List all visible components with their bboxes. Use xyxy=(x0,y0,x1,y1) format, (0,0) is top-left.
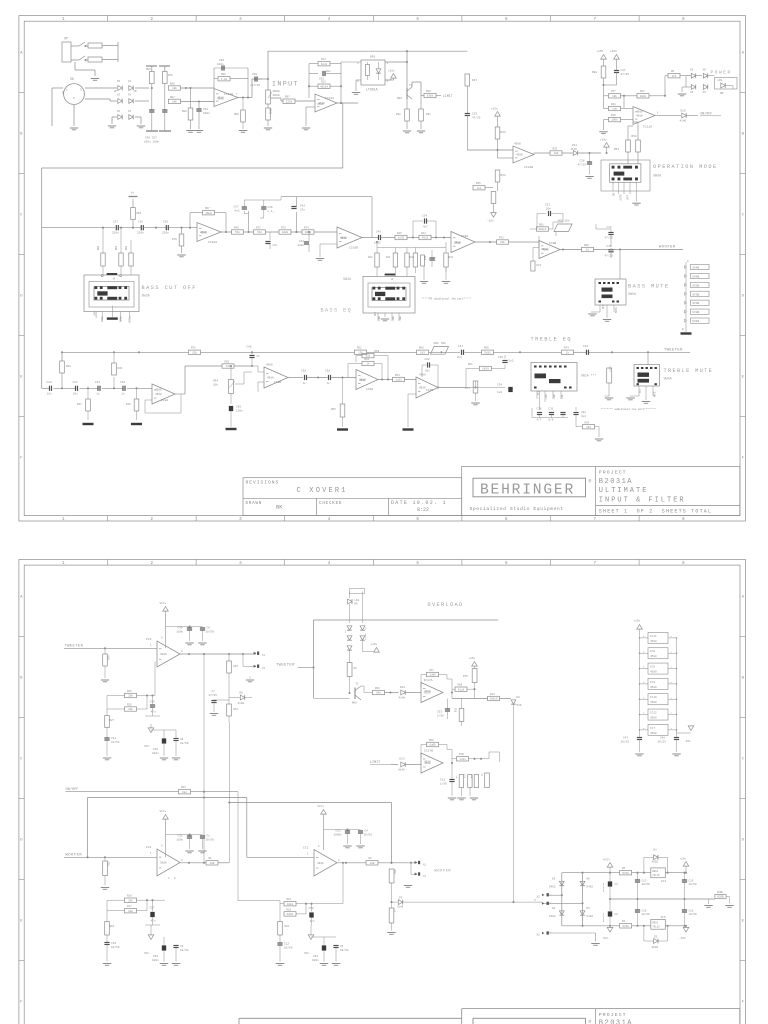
svg-text:1u06: 1u06 xyxy=(429,674,436,677)
svg-text:4580: 4580 xyxy=(454,242,461,245)
svg-text:R27: R27 xyxy=(110,719,115,722)
svg-text:47/25: 47/25 xyxy=(605,254,614,258)
switch SW2A body xyxy=(372,288,406,301)
svg-text:R76: R76 xyxy=(463,675,468,678)
svg-text:R50: R50 xyxy=(632,135,637,138)
svg-text:15k: 15k xyxy=(366,354,371,358)
op-amp IC11A xyxy=(633,107,655,125)
DIP switch operation mode outer box xyxy=(601,160,650,191)
svg-text:R76: R76 xyxy=(168,74,173,77)
svg-text:1n: 1n xyxy=(327,382,331,385)
svg-text:C22: C22 xyxy=(73,381,78,384)
svg-text:624k: 624k xyxy=(321,62,328,66)
wire IC2 in xyxy=(247,856,314,858)
ground R11 xyxy=(101,887,109,889)
svg-text:8n2: 8n2 xyxy=(235,210,240,213)
resistor R7B vertical xyxy=(421,255,425,266)
svg-text:ULTIMATE: ULTIMATE xyxy=(599,487,649,495)
svg-text:10/50: 10/50 xyxy=(689,912,697,916)
ground resistor bank A xyxy=(423,266,425,280)
capacitor C1 xyxy=(190,834,203,836)
svg-text:VR4: VR4 xyxy=(213,380,218,383)
svg-text:4dB: 4dB xyxy=(561,394,564,399)
switch SW1A dark bar B xyxy=(549,379,561,383)
svg-text:E: E xyxy=(742,376,745,380)
capacitor C53b xyxy=(447,708,449,710)
svg-text:SW5A: SW5A xyxy=(628,293,637,297)
ground C63 xyxy=(343,845,351,847)
resistor R8 vertical xyxy=(347,663,352,677)
op-amp IC7B xyxy=(416,377,438,398)
svg-text:R74: R74 xyxy=(304,226,309,229)
regulator IC4 box xyxy=(651,868,666,878)
capacitor C21 series xyxy=(97,386,99,391)
svg-text:C9: C9 xyxy=(180,738,184,741)
svg-text:67Hz: 67Hz xyxy=(101,316,104,322)
op-amp IC9A xyxy=(451,232,475,253)
diode X1 tweeter lower xyxy=(242,654,244,667)
svg-text:R6A: R6A xyxy=(429,739,434,742)
resistor R65 vertical xyxy=(342,378,344,405)
svg-text:B2031A: B2031A xyxy=(599,478,633,486)
svg-text:®: ® xyxy=(589,1018,592,1024)
resistor R74 box xyxy=(302,230,314,234)
bridge rail left xyxy=(561,873,563,926)
svg-text:ON/OFF: ON/OFF xyxy=(66,787,79,792)
svg-text:C10: C10 xyxy=(111,942,116,945)
svg-text:IC12B: IC12B xyxy=(224,93,233,96)
svg-text:C32: C32 xyxy=(581,411,586,414)
capacitor C63 xyxy=(324,829,348,831)
svg-text:®: ® xyxy=(589,478,592,485)
svg-text:10/50: 10/50 xyxy=(206,630,215,634)
svg-text:RD: RD xyxy=(355,603,359,606)
capacitor C25 xyxy=(165,225,167,230)
svg-text:+15v: +15v xyxy=(469,657,476,660)
power +15V overload xyxy=(374,648,380,653)
capacitor C49b xyxy=(166,626,190,628)
svg-text:X2: X2 xyxy=(537,934,541,937)
capacitor C3 big xyxy=(609,873,611,881)
svg-text:R36: R36 xyxy=(118,367,123,370)
svg-text:X3: X3 xyxy=(690,91,694,94)
svg-text:C1: C1 xyxy=(207,835,211,838)
svg-text:8/8: 8/8 xyxy=(549,418,554,422)
power VCC- psu xyxy=(609,926,611,928)
diode D4 xyxy=(559,911,564,915)
ground C53 xyxy=(146,130,158,132)
cap bar above SW2A xyxy=(385,274,396,276)
resistor R58 box xyxy=(417,350,429,354)
ground SW2A xyxy=(381,318,389,320)
capacitor C60 filled xyxy=(229,406,233,411)
svg-text:VCC-: VCC- xyxy=(603,937,610,940)
psu ground top A xyxy=(704,905,712,907)
svg-text:3: 3 xyxy=(357,62,359,65)
ground R59 xyxy=(605,397,613,399)
svg-text:220n: 220n xyxy=(162,232,169,235)
border frame inner xyxy=(24,21,740,515)
feedback C67 box xyxy=(427,672,439,676)
svg-text:R96: R96 xyxy=(221,73,226,76)
svg-text:C23: C23 xyxy=(47,381,52,384)
switch SW2A pads bottom xyxy=(373,297,376,300)
svg-text:6000/50: 6000/50 xyxy=(602,882,605,892)
switch SW2A dark bar xyxy=(375,292,385,296)
svg-text:R48: R48 xyxy=(611,103,616,106)
wire woofer out xyxy=(613,249,683,251)
resistor R90B vertical xyxy=(266,108,271,120)
svg-text:3: 3 xyxy=(338,859,340,862)
svg-text:R42: R42 xyxy=(368,256,373,259)
svg-text:C: C xyxy=(20,214,23,218)
svg-text:C18: C18 xyxy=(689,910,694,913)
switch SW3A pads top xyxy=(95,286,98,289)
svg-text:R43: R43 xyxy=(449,256,454,259)
power VCC- IC2 xyxy=(308,935,314,940)
svg-text:10/50: 10/50 xyxy=(180,948,189,952)
svg-text:R67: R67 xyxy=(205,207,210,210)
wire R45-R44 xyxy=(407,237,419,239)
svg-text:C50: C50 xyxy=(150,701,155,704)
ground R57 xyxy=(471,402,479,404)
svg-text:47u: 47u xyxy=(151,920,156,923)
svg-text:R99: R99 xyxy=(182,110,187,113)
svg-text:88Hz: 88Hz xyxy=(120,316,123,322)
svg-text:SHEET 1 OF 2 SHEETS TOTAL: SHEET 1 OF 2 SHEETS TOTAL xyxy=(599,508,712,514)
svg-text:4u7: 4u7 xyxy=(423,226,428,229)
svg-text:100Hz: 100Hz xyxy=(129,316,132,324)
op-amp IC8B xyxy=(264,367,288,388)
svg-text:C42: C42 xyxy=(300,205,305,208)
ground C51b xyxy=(185,850,193,852)
svg-text:D: D xyxy=(20,838,23,842)
svg-text:4148: 4148 xyxy=(680,119,687,122)
svg-text:13k: 13k xyxy=(358,350,363,354)
svg-text:1k54: 1k54 xyxy=(482,367,489,371)
svg-text:R16: R16 xyxy=(234,708,239,711)
resistor R46 box xyxy=(232,230,244,234)
wire IC12A out xyxy=(337,102,358,104)
ground C9b xyxy=(172,757,180,759)
resistor R5 vertical xyxy=(476,759,478,775)
capacitor C57b filled xyxy=(152,900,154,911)
svg-text:C32: C32 xyxy=(583,345,588,348)
svg-text:R27: R27 xyxy=(472,79,477,82)
capacitor C18 xyxy=(684,899,686,910)
svg-text:X9: X9 xyxy=(703,69,707,72)
svg-text:41k8M: 41k8M xyxy=(609,365,612,372)
ground IC7B thick xyxy=(408,393,416,395)
svg-text:R63: R63 xyxy=(375,350,380,353)
resistor R88 box 10k xyxy=(169,86,181,90)
IC8A feedback box xyxy=(145,399,152,401)
wire C50 to VR6A xyxy=(257,78,268,80)
wire loop to T1 base xyxy=(314,697,350,699)
svg-text:OFF: OFF xyxy=(627,194,630,199)
capacitor C52 feedback xyxy=(536,214,538,230)
capacitor C38 series xyxy=(328,375,330,380)
svg-text:C17: C17 xyxy=(642,880,647,883)
svg-text:+15v: +15v xyxy=(634,620,641,623)
resistor R1 box xyxy=(206,861,218,865)
svg-text:4580: 4580 xyxy=(340,237,347,240)
DIP opmode pins down xyxy=(612,182,614,191)
svg-text:X2: X2 xyxy=(537,896,541,899)
wire onoff vertical xyxy=(203,654,205,792)
resistor R30 box xyxy=(550,151,562,155)
svg-text:XP: XP xyxy=(64,37,68,41)
bridge rail right xyxy=(582,873,584,926)
svg-text:7: 7 xyxy=(236,93,238,96)
svg-text:4: 4 xyxy=(357,80,359,83)
resistor R12 vertical xyxy=(461,699,463,709)
svg-text:PROJECT: PROJECT xyxy=(599,470,627,476)
svg-text:D2: D2 xyxy=(654,936,658,939)
power +15V psu xyxy=(683,862,689,867)
svg-text:1u21: 1u21 xyxy=(395,379,402,382)
svg-text:IC7B: IC7B xyxy=(426,389,433,392)
wire R46-R77 xyxy=(244,231,254,233)
svg-text:100k: 100k xyxy=(611,118,618,122)
resistor R27b vertical xyxy=(106,709,108,716)
capacitor C32 series xyxy=(586,350,588,355)
resistor R3 box xyxy=(620,871,632,875)
wire caps to ground xyxy=(151,112,153,131)
svg-text:INPUT & FILTER: INPUT & FILTER xyxy=(599,497,686,505)
svg-text:100k: 100k xyxy=(287,912,294,916)
op-amp IC3 tweeter xyxy=(157,641,180,667)
resistor R76b vertical xyxy=(474,666,476,669)
svg-text:3: 3 xyxy=(181,650,183,653)
svg-text:100n: 100n xyxy=(177,838,184,841)
svg-text:10/50: 10/50 xyxy=(206,837,215,841)
svg-text:4580: 4580 xyxy=(155,393,162,396)
svg-text:C60: C60 xyxy=(236,406,241,409)
svg-text:C41: C41 xyxy=(273,244,278,247)
svg-text:10/50: 10/50 xyxy=(180,741,189,745)
svg-text:R7: R7 xyxy=(455,775,458,778)
svg-text:4580: 4580 xyxy=(650,717,657,720)
svg-text:8: 8 xyxy=(643,635,645,638)
svg-text:+47/25: +47/25 xyxy=(250,83,260,87)
power VCC+ tweeter xyxy=(163,607,169,612)
svg-text:10/50: 10/50 xyxy=(642,912,650,916)
svg-text:POWER: POWER xyxy=(711,71,732,76)
svg-text:n,1,: n,1, xyxy=(268,210,275,213)
DIP opmode bar mid xyxy=(614,172,625,176)
svg-text:R19: R19 xyxy=(110,925,115,928)
capacitor C48 vertical xyxy=(251,352,253,355)
resistor R2 box xyxy=(366,861,378,865)
connector stack wire xyxy=(685,262,687,330)
svg-text:D10: D10 xyxy=(681,110,686,113)
ground R24 xyxy=(101,679,109,681)
svg-text:R14: R14 xyxy=(321,58,326,61)
power +15V R76 xyxy=(472,662,478,667)
svg-text:4: 4 xyxy=(671,650,673,653)
wire IC13B to opmode xyxy=(533,153,535,155)
wire C46-R45 xyxy=(381,237,396,239)
svg-text:OFF: OFF xyxy=(374,311,377,316)
ground R35c xyxy=(131,423,142,425)
svg-text:A: A xyxy=(20,595,23,599)
resistor R37 vertical xyxy=(87,388,89,399)
svg-text:C28: C28 xyxy=(580,160,585,163)
jack switch contact lower xyxy=(79,56,85,60)
capacitor C41 vert xyxy=(269,232,271,240)
svg-text:R40: R40 xyxy=(410,256,415,259)
svg-text:-15V: -15V xyxy=(679,937,686,940)
svg-text:2: 2 xyxy=(550,901,552,904)
svg-text:14: 14 xyxy=(113,278,116,281)
wire IC10B feedback xyxy=(371,197,373,238)
svg-text:79L15: 79L15 xyxy=(652,926,660,929)
capacitor C8b xyxy=(190,626,203,628)
svg-text:R72: R72 xyxy=(499,236,504,239)
svg-text:TWEETER: TWEETER xyxy=(65,645,84,649)
svg-text:IC10B: IC10B xyxy=(349,247,358,250)
svg-text:C58: C58 xyxy=(309,907,314,910)
svg-text:B: B xyxy=(20,133,23,137)
jack switch contact upper xyxy=(79,42,85,46)
svg-text:IC13B: IC13B xyxy=(524,166,533,169)
svg-text:8: 8 xyxy=(643,650,645,653)
svg-text:SV3B: SV3B xyxy=(692,302,699,305)
svg-text:47/25: 47/25 xyxy=(578,162,587,166)
capacitor C44 xyxy=(610,229,612,232)
op-amp IC10B xyxy=(337,227,362,248)
svg-text:-2dB: -2dB xyxy=(378,316,381,322)
revisions block outline xyxy=(243,478,462,516)
svg-text:C14: C14 xyxy=(111,737,116,740)
resistor R17 box xyxy=(125,909,137,913)
ground X1 xyxy=(249,667,251,677)
svg-text:SV3B: SV3B xyxy=(692,293,699,296)
svg-text:10R: 10R xyxy=(210,862,215,865)
ground C48b xyxy=(672,753,680,755)
wire IC6A out xyxy=(378,379,393,381)
feedback R25 box xyxy=(125,707,137,711)
ground opmode xyxy=(632,202,640,204)
ground opto row3 left xyxy=(108,125,116,127)
svg-text:CHECKED: CHECKED xyxy=(319,502,342,506)
svg-text:4: 4 xyxy=(671,635,673,638)
svg-text:+15v: +15v xyxy=(491,108,498,111)
svg-text:A: A xyxy=(742,52,745,56)
svg-text:K5: K5 xyxy=(117,80,121,83)
svg-text:F: F xyxy=(20,1000,23,1004)
wire to opamp IC12B xyxy=(181,87,215,89)
op-amp IC17A xyxy=(421,683,443,703)
op-amp IC12B xyxy=(214,89,238,107)
resistor R75 vertical xyxy=(469,759,471,775)
svg-text:4002: 4002 xyxy=(652,946,659,949)
svg-text:D: D xyxy=(742,838,745,842)
resistor R10 vertical xyxy=(389,869,394,883)
svg-text:C52: C52 xyxy=(545,204,550,207)
capacitor C36 xyxy=(261,206,266,208)
psu top rail xyxy=(562,872,620,874)
resistor R18 box xyxy=(125,898,137,902)
svg-text:C48: C48 xyxy=(247,346,252,349)
svg-text:DP1: DP1 xyxy=(370,56,376,59)
svg-text:78L15: 78L15 xyxy=(652,874,660,877)
svg-text:C49: C49 xyxy=(178,627,183,630)
svg-text:VCC+: VCC+ xyxy=(160,602,167,605)
svg-text:R46: R46 xyxy=(234,226,239,229)
svg-text:1u05: 1u05 xyxy=(398,237,405,240)
wire IC10A out xyxy=(221,231,232,233)
svg-text:1/50: 1/50 xyxy=(437,713,444,717)
resistor R13 box xyxy=(488,696,500,700)
svg-text:R01: R01 xyxy=(125,245,128,250)
svg-text:R35: R35 xyxy=(126,403,131,406)
svg-text:VCC+: VCC+ xyxy=(160,810,167,813)
svg-text:+15V: +15V xyxy=(597,50,604,53)
wire IC9B out xyxy=(560,249,582,251)
svg-text:B: B xyxy=(742,676,745,680)
capacitor C27 xyxy=(115,225,117,230)
svg-text:R24: R24 xyxy=(108,655,111,660)
resistor R72 box xyxy=(497,240,509,244)
capacitor C50 series xyxy=(254,76,256,81)
svg-text:4580: 4580 xyxy=(419,374,426,377)
p2 revisions outline xyxy=(239,1017,462,1019)
svg-text:OVERLOAD: OVERLOAD xyxy=(428,602,464,608)
svg-text:E: E xyxy=(742,919,745,923)
switch SW4A dark bar B xyxy=(638,379,650,383)
svg-text:5: 5 xyxy=(318,845,320,848)
resistor R32 vertical xyxy=(406,99,408,109)
svg-text:R51: R51 xyxy=(614,148,619,151)
svg-text:C51: C51 xyxy=(178,835,183,838)
svg-text:1000u: 1000u xyxy=(334,833,343,836)
svg-text:C39: C39 xyxy=(301,370,306,373)
svg-text:1k: 1k xyxy=(566,350,570,354)
svg-text:50k: 50k xyxy=(441,341,446,345)
svg-text:R61: R61 xyxy=(468,363,473,366)
resistor R7B box xyxy=(457,757,469,761)
svg-text:BASS CUT OFF: BASS CUT OFF xyxy=(142,285,197,291)
capacitor C16 xyxy=(637,899,639,910)
wire C26-C25 xyxy=(143,227,166,229)
svg-text:5V48: 5V48 xyxy=(622,925,629,928)
svg-text:4580: 4580 xyxy=(200,232,207,235)
svg-text:10n: 10n xyxy=(47,393,52,396)
svg-text:1.8k: 1.8k xyxy=(221,77,228,81)
capacitor C23 series xyxy=(49,386,51,391)
svg-text:IC4: IC4 xyxy=(661,880,666,883)
wire T1 collector xyxy=(361,685,364,687)
svg-text:10/50: 10/50 xyxy=(340,948,349,952)
svg-text:47u: 47u xyxy=(151,711,156,714)
capacitor C34 filled xyxy=(466,387,505,389)
svg-text:TREBLE EQ: TREBLE EQ xyxy=(531,337,573,343)
ground R31 xyxy=(417,130,425,132)
capacitor C31b vertical xyxy=(560,412,565,414)
svg-text:10/50: 10/50 xyxy=(642,882,650,886)
svg-text:5: 5 xyxy=(161,845,163,848)
svg-text:1: 1 xyxy=(387,62,389,65)
svg-text:15k6: 15k6 xyxy=(205,211,212,215)
svg-text:6k2: 6k2 xyxy=(182,790,187,794)
ground C28 xyxy=(585,176,593,178)
svg-text:2n2: 2n2 xyxy=(457,356,462,359)
wire T2 net xyxy=(401,62,403,90)
p2 title block outline xyxy=(462,1008,740,1010)
wire opamp inputs from switch xyxy=(628,125,633,127)
